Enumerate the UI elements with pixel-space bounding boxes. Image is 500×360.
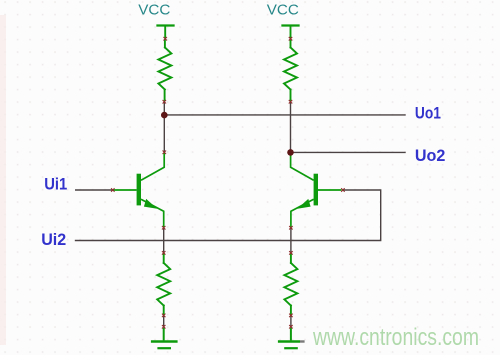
pin marker bbox=[289, 325, 293, 329]
pin marker bbox=[162, 325, 166, 329]
wire: node Uo2 horizontal bbox=[291, 151, 406, 153]
wire: Ui1 input to Q1 base bbox=[76, 189, 113, 191]
resistor upper-left body bbox=[158, 41, 171, 101]
wire: left lower resistor to ground bbox=[163, 316, 165, 326]
svg-text:VCC: VCC bbox=[267, 2, 299, 19]
power symbol VCC right (T bar) bbox=[283, 26, 299, 38]
wire: left resistor to node Uo1 bbox=[163, 103, 165, 115]
pin marker bbox=[162, 314, 166, 318]
svg-text:Ui2: Ui2 bbox=[41, 231, 66, 249]
watermark gray dash over ground bar bbox=[300, 340, 305, 342]
resistor lower-left body bbox=[157, 254, 170, 314]
svg-text:Uo1: Uo1 bbox=[415, 105, 441, 123]
pin marker bbox=[289, 100, 293, 104]
wire: node Uo1 horizontal bbox=[164, 114, 405, 116]
svg-text:VCC: VCC bbox=[138, 2, 170, 19]
ground right bbox=[278, 328, 300, 349]
svg-text:Uo2: Uo2 bbox=[415, 147, 446, 165]
wire: right resistor to node Uo2 bbox=[290, 103, 292, 152]
resistor upper-right body bbox=[284, 41, 297, 101]
pin marker bbox=[289, 37, 293, 41]
pin marker bbox=[163, 37, 167, 41]
ground left bbox=[151, 328, 178, 349]
pin marker bbox=[289, 314, 293, 318]
wire: node Uo1 to Q1 collector bbox=[163, 115, 165, 152]
power symbol VCC left (T bar) bbox=[158, 26, 174, 38]
wire: Q2 emitter to right lower resistor bbox=[290, 229, 292, 252]
wire: Q1 emitter to left lower resistor bbox=[163, 229, 165, 252]
junction node Uo2 bbox=[287, 149, 294, 156]
pin marker bbox=[289, 251, 293, 255]
wire: right lower resistor to ground bbox=[290, 316, 292, 326]
pin marker bbox=[289, 226, 293, 230]
pin marker bbox=[341, 188, 345, 192]
resistor lower-right body bbox=[284, 254, 297, 314]
svg-text:Ui1: Ui1 bbox=[44, 176, 67, 194]
pin marker bbox=[162, 251, 166, 255]
pin marker bbox=[111, 188, 115, 192]
pin marker bbox=[163, 100, 167, 104]
junction node Uo1 bbox=[161, 112, 168, 119]
pin marker bbox=[163, 151, 167, 155]
transistor Q2 (right NPN) bbox=[291, 154, 342, 227]
wire: Ui2 input line to Q2 base loop bbox=[76, 190, 381, 241]
svg-text:www.cntronics.com: www.cntronics.com bbox=[312, 324, 479, 351]
transistor Q1 (left NPN) bbox=[114, 153, 165, 227]
pin marker bbox=[162, 226, 166, 230]
